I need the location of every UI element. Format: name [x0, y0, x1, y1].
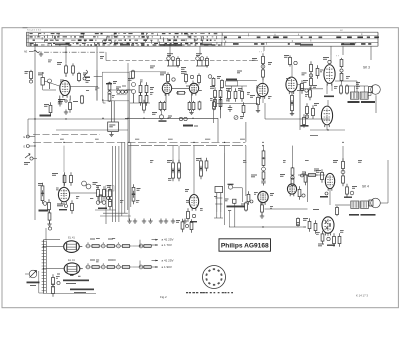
- coil L1: [41, 78, 52, 90]
- ground: [189, 110, 193, 115]
- tone control row: [227, 201, 248, 227]
- component value labels: [48, 60, 362, 279]
- socket bar V13: [320, 192, 328, 198]
- label: [252, 58, 272, 65]
- screen chain right of V7: [340, 58, 343, 85]
- grid chain left of V7: [302, 61, 319, 89]
- loudspeaker LS1: [368, 85, 380, 96]
- wire: [193, 146, 195, 195]
- wire: [229, 211, 231, 227]
- small part: [185, 219, 193, 233]
- wire: [330, 189, 350, 205]
- wire: [262, 77, 264, 84]
- resistor R2: [49, 102, 52, 116]
- tuning indicators: [82, 181, 98, 189]
- tuning gang: [179, 117, 198, 126]
- supply arrow A1: [152, 238, 174, 242]
- wire: [330, 55, 332, 63]
- screen resistor V14: [336, 206, 339, 216]
- wire: [126, 72, 166, 90]
- resistor R12: [257, 94, 260, 108]
- Philips AG9168 label box: [219, 239, 271, 251]
- HT bus 2 (dashed): [33, 122, 246, 142]
- svg-text:E: E: [24, 145, 26, 149]
- wire from switch strip: [370, 46, 372, 60]
- svg-text:Philips AG9168: Philips AG9168: [221, 243, 269, 250]
- coil L4: [116, 87, 127, 95]
- base diagram caption: [186, 292, 233, 293]
- arrow marks: [336, 55, 339, 58]
- wire: [297, 84, 300, 86]
- tube V15 (EL41): [64, 241, 83, 253]
- resistor R11: [262, 67, 265, 81]
- wire: [70, 192, 97, 194]
- wire from switch strip: [330, 46, 332, 55]
- svg-text:a 1 90V: a 1 90V: [162, 265, 172, 269]
- wave-trap on aerial lead: [25, 70, 33, 83]
- tube V3 (IF amp): [162, 83, 171, 96]
- wire: [43, 72, 56, 90]
- wire: [34, 133, 36, 220]
- parts left of V12: [247, 191, 253, 205]
- chain above V13: [333, 146, 345, 186]
- wire: [215, 98, 221, 119]
- resistor R9: [192, 101, 195, 111]
- row line 1: [85, 245, 133, 247]
- wire: [96, 46, 98, 70]
- cathode parts: [52, 274, 61, 297]
- svg-text:S2: S2: [340, 30, 343, 32]
- resistor R8: [188, 101, 191, 111]
- wire: [56, 129, 128, 131]
- coupling parts: [208, 75, 223, 89]
- coupling C10: [261, 65, 265, 69]
- matching network: [335, 81, 357, 95]
- svg-text:↑ ↑: ↑ ↑: [336, 55, 339, 58]
- wire from switch strip: [34, 46, 36, 52]
- parts above V7: [323, 57, 331, 64]
- svg-text:a 41 25V: a 41 25V: [162, 238, 174, 242]
- AVC blob label: [40, 115, 52, 117]
- wire: [172, 88, 190, 94]
- wire: [43, 247, 64, 269]
- trimmer group T2: [196, 53, 209, 67]
- tube V17 (AF driver): [287, 184, 296, 196]
- output transformer T4 secondary: [360, 92, 368, 99]
- HT bus (dashed): [33, 134, 100, 136]
- parts above V4: [181, 71, 200, 85]
- wire: [43, 293, 96, 295]
- B+ filter row 1: [86, 239, 152, 248]
- wire: [300, 84, 323, 130]
- label: [73, 101, 78, 102]
- loudspeaker LS2: [369, 198, 380, 208]
- ground: [64, 110, 68, 115]
- wire: [173, 146, 179, 163]
- parts above V3: [160, 72, 175, 83]
- lamp label: [27, 282, 40, 287]
- volume pot P1: [159, 110, 167, 122]
- Fig label: [160, 295, 167, 299]
- transformer labels: [348, 101, 376, 103]
- label: [181, 67, 186, 70]
- wire from switch strip: [263, 46, 265, 51]
- cluster right of V4: [210, 86, 222, 110]
- ground: [290, 111, 294, 116]
- label EL41 b: [68, 258, 75, 262]
- bias network labels 2: [70, 289, 94, 294]
- aerial input terminal: [24, 51, 43, 57]
- output transformer T6 primary: [351, 201, 359, 208]
- tube V8 (rectifier): [321, 106, 332, 127]
- parts near right: [302, 172, 307, 186]
- switch wiring verticals: [100, 142, 131, 224]
- wire: [94, 70, 102, 101]
- B+ filter row 2: [86, 260, 152, 269]
- tube V6: [286, 77, 297, 94]
- dash-dot wire (aerial line): [44, 51, 106, 53]
- wire: [303, 227, 328, 236]
- svg-text:a 41 25V: a 41 25V: [162, 259, 174, 263]
- coupling network after V9: [95, 185, 116, 210]
- resistor R14: [291, 100, 294, 114]
- svg-text:a 1 70V: a 1 70V: [162, 243, 172, 247]
- padder windings: [111, 101, 114, 122]
- svg-text:K 14 17 3: K 14 17 3: [356, 294, 368, 298]
- wire: [128, 146, 130, 220]
- wire: [108, 89, 132, 91]
- label: [24, 162, 30, 165]
- capacitor C24: [233, 199, 236, 203]
- tube V13: [325, 173, 334, 190]
- wire: [65, 75, 67, 77]
- volume pot cluster: [234, 116, 244, 120]
- svg-text:EL 41: EL 41: [68, 236, 75, 240]
- wire: [60, 96, 70, 105]
- wire: [128, 101, 130, 143]
- trimmer group T1: [167, 53, 180, 67]
- parts right of V17: [298, 186, 305, 200]
- oscillator network (L/C/R cluster): [128, 70, 154, 114]
- tube V1 (RF amp): [60, 81, 70, 98]
- ground: [260, 214, 264, 219]
- resistor R20: [48, 210, 51, 224]
- feed line to V13 stage: [298, 169, 325, 178]
- parts near V8: [301, 103, 320, 128]
- wire: [139, 240, 141, 267]
- wire: [225, 153, 271, 227]
- label: [185, 189, 189, 192]
- parts right of V6: [301, 80, 317, 100]
- supply arrow A3: [152, 259, 174, 263]
- wire: [105, 52, 107, 60]
- wire from switch strip: [342, 46, 344, 55]
- wire: [71, 86, 98, 88]
- supply arrow A4: [152, 265, 172, 269]
- coil L3 chain: [106, 81, 117, 102]
- parts: [48, 227, 51, 230]
- switch bank SK1/SK2 contact strip: [27, 30, 379, 47]
- parts right: [132, 184, 140, 204]
- svg-text:E: E: [24, 135, 26, 139]
- wire: [43, 239, 60, 241]
- valve base diagram: [203, 266, 226, 289]
- wire: [44, 81, 59, 86]
- svg-text:EL 41: EL 41: [68, 258, 75, 262]
- cluster CE: [344, 184, 357, 198]
- detector diode network: [217, 71, 258, 116]
- wire: [226, 86, 248, 91]
- socket bar V7: [324, 83, 334, 97]
- tube V9 (AF amp): [58, 187, 69, 204]
- label: [44, 104, 49, 107]
- wire: [45, 228, 47, 240]
- wire: [380, 160, 388, 203]
- capacitor C2: [58, 100, 62, 107]
- wire: [224, 146, 226, 225]
- ground: [256, 108, 260, 113]
- parts left of V14: [297, 217, 317, 233]
- svg-text:SK 4: SK 4: [362, 185, 369, 189]
- wire: [270, 226, 306, 228]
- IF can T5: [215, 187, 223, 213]
- wire: [257, 105, 259, 109]
- chain above V12: [251, 146, 266, 186]
- svg-text:AE: AE: [24, 51, 28, 54]
- parts above V6: [284, 55, 297, 67]
- svg-text:S1 a-b 1 2 3 4: S1 a-b 1 2 3 4: [27, 30, 42, 32]
- wire from switch strip: [169, 46, 171, 57]
- wire: [28, 118, 218, 142]
- tube V5 (AF amp): [257, 83, 268, 98]
- drawing number: [356, 294, 368, 298]
- label specks between tubes: [57, 274, 81, 277]
- label: [38, 73, 44, 76]
- resistor R1: [72, 63, 75, 75]
- supply arrow A2: [152, 243, 172, 247]
- tube V7 (output): [324, 65, 335, 86]
- mains/output transformer winding: [42, 240, 47, 294]
- capacitor C1: [65, 63, 68, 75]
- label: [241, 204, 245, 207]
- label EL41 a: [68, 236, 75, 240]
- bias network labels: [63, 280, 89, 285]
- label: [150, 66, 155, 69]
- bus voltage labels: [60, 135, 318, 140]
- parts below V14: [318, 231, 341, 247]
- output transformer T4 primary: [351, 92, 359, 99]
- svg-text:Fig.2: Fig.2: [160, 295, 167, 299]
- label SK 3: [363, 66, 370, 70]
- socket cluster below V9: [57, 200, 73, 214]
- IF transformer label box: [226, 79, 238, 87]
- wire: [346, 86, 368, 92]
- resistor R13: [291, 92, 294, 106]
- wire from switch strip: [65, 46, 67, 63]
- ground: [47, 222, 51, 227]
- parts mid: [213, 101, 216, 123]
- chain above V17: [291, 146, 294, 186]
- mixer grid parts: [85, 70, 91, 83]
- label: [225, 199, 229, 202]
- AVC cluster: [38, 183, 50, 213]
- wire: [39, 271, 44, 293]
- chain below V3: [159, 101, 166, 111]
- transformer labels 2: [349, 214, 376, 216]
- dashed AM line: [106, 60, 258, 62]
- wire: [327, 100, 329, 106]
- dark label: [39, 210, 49, 212]
- parts left low: [176, 219, 184, 233]
- wire: [28, 118, 128, 120]
- wire: [291, 65, 293, 77]
- label: [280, 174, 285, 177]
- label SK 4: [362, 185, 369, 189]
- resistor R27: [261, 202, 264, 216]
- label EBL: [313, 209, 319, 210]
- label: [152, 112, 172, 118]
- tube V14 (output pentode): [322, 217, 334, 236]
- resistors above V9: [52, 172, 72, 186]
- wire: [263, 96, 330, 119]
- wire from switch strip: [199, 46, 201, 55]
- wire: [214, 212, 223, 218]
- label: [270, 193, 274, 196]
- pickup terminal: [25, 154, 37, 161]
- terminal E2: [24, 145, 36, 149]
- wire (osc feed): [127, 63, 129, 142]
- tube V10: [189, 195, 198, 211]
- tube V4 (IF amp 2): [189, 83, 198, 95]
- wire: [307, 175, 309, 202]
- terminal E1: [24, 135, 36, 139]
- grounds row: [127, 219, 187, 224]
- row line 2: [85, 266, 133, 268]
- coil unit frame: [102, 72, 129, 101]
- wire: [63, 146, 65, 188]
- ground: [109, 132, 113, 137]
- svg-text:↑ ↑ ↑: ↑ ↑ ↑: [259, 51, 264, 54]
- label: [250, 95, 255, 98]
- wire: [34, 52, 36, 133]
- wire: [103, 99, 106, 103]
- svg-text:SK 3: SK 3: [363, 66, 370, 70]
- grid cap parts: [78, 72, 88, 104]
- label: [100, 56, 104, 59]
- pilot lamp: [25, 270, 37, 278]
- wire: [192, 81, 194, 103]
- label: [300, 88, 304, 91]
- wire: [166, 82, 168, 103]
- label: [356, 82, 360, 85]
- parts: [198, 101, 201, 111]
- note text: [23, 27, 28, 28]
- trimmer box: [108, 122, 119, 131]
- parts under V10: [187, 208, 197, 222]
- output transformer T6 secondary: [361, 201, 369, 208]
- tube V12: [258, 191, 268, 205]
- label: [57, 62, 62, 65]
- tube V16 (EL41): [64, 263, 83, 275]
- wire: [265, 208, 308, 210]
- tone network: [167, 160, 180, 182]
- wire: [310, 95, 376, 130]
- parts: [196, 158, 208, 180]
- parts near V13: [316, 169, 323, 183]
- arrow marks: [259, 51, 264, 54]
- socket marks under V1: [58, 99, 67, 102]
- resistor R10: [262, 53, 265, 67]
- resistor R3: [69, 99, 72, 113]
- heater bus: [128, 146, 246, 196]
- volume pot: [228, 184, 243, 202]
